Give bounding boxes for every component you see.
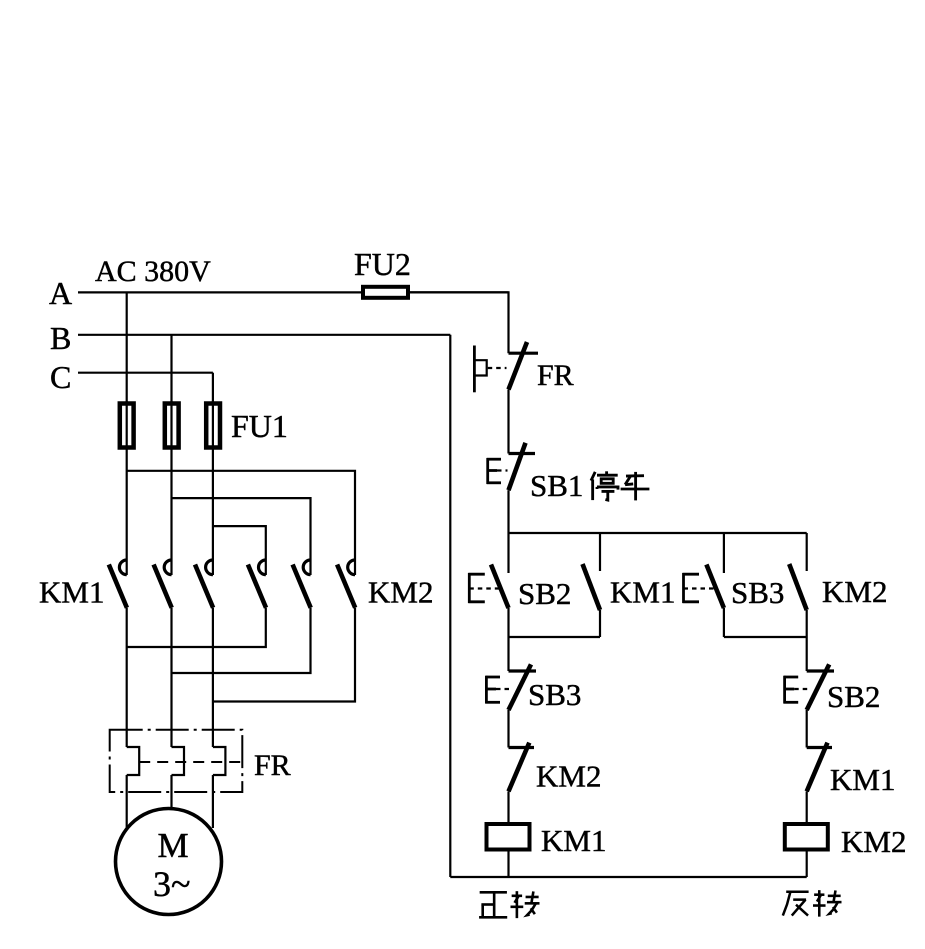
wire SB1 to top rail [507, 490, 509, 533]
dashed link SB2 [469, 587, 500, 589]
label fan (reverse char 1) [783, 892, 809, 916]
wire control top rail [509, 532, 807, 534]
wire SB2 NC to KM1 NC [806, 710, 808, 748]
label zhuan (forward char 2) [511, 891, 540, 918]
wire SB2 branch top [507, 533, 509, 573]
pushbutton SB3 NC contact (left branch) [509, 664, 537, 710]
wire heater 1 to motor [126, 775, 128, 828]
coil KM1 [487, 824, 530, 850]
thermal relay FR heater element 2 [172, 747, 185, 775]
svg-text:C: C [50, 359, 71, 395]
thermal relay FR linkage dashed [139, 761, 242, 763]
label zheng (forward char 1) [479, 892, 507, 917]
thermal relay FR heater box [110, 730, 243, 792]
wire KM2 contact 6 cross jumper to L3 [213, 608, 355, 702]
fuse FU2 [363, 287, 408, 298]
fuse FU1c [206, 401, 220, 450]
pushbutton SB2 actuator [468, 573, 485, 603]
wire KM1 contact 2 down [170, 608, 172, 747]
svg-text:A: A [49, 275, 72, 311]
wire SB2 to SB3 [507, 637, 509, 671]
thermal relay FR heater element 1 [127, 747, 140, 775]
pushbutton SB1 NC contact [509, 443, 536, 490]
wire KM1 contact 3 down [212, 608, 214, 747]
svg-text:KM2: KM2 [368, 575, 433, 610]
relay FR thermal actuator [474, 346, 486, 393]
wire parallel rail left [509, 636, 601, 638]
pushbutton SB3 NO contact (right) [706, 565, 724, 609]
contactor KM2 NC interlock contact [509, 743, 535, 792]
wire KM2 contact 5 cross jumper to L2 [172, 608, 311, 673]
contactor KM1 aux NO contact [583, 533, 601, 637]
dashed link SB3 left [496, 688, 512, 690]
wire phase B horizontal [78, 334, 450, 336]
wire coil KM1 to bottom rail [507, 850, 509, 878]
contactor KM1 main contact 2 [154, 560, 172, 608]
svg-text:AC 380V: AC 380V [95, 255, 211, 288]
svg-text:B: B [50, 320, 71, 356]
label ting (stop char 1) [591, 471, 618, 500]
coil KM2 [785, 824, 828, 850]
wire KM1 NC to coil KM2 [806, 791, 808, 822]
wire L3 fuse to KM1 contact 3 [212, 450, 214, 576]
wire heater 2 to motor [170, 775, 172, 809]
svg-text:FR: FR [254, 749, 291, 782]
wire parallel rail right [724, 636, 807, 638]
svg-text:FR: FR [537, 359, 574, 392]
svg-text:KM2: KM2 [822, 574, 887, 609]
wire SB3 to KM2 NC [507, 710, 509, 748]
fuse FU1b [165, 401, 179, 450]
contactor KM2 main contact 6 [337, 560, 355, 608]
fuse FU1a [120, 401, 134, 450]
svg-text:SB2: SB2 [827, 679, 880, 714]
contactor KM1 main contact 1 [109, 560, 127, 608]
wire FR to SB1 [507, 390, 509, 454]
svg-text:SB3: SB3 [528, 677, 581, 712]
wire L2 fuse to KM1 contact 2 [170, 450, 172, 576]
relay FR NC contact [509, 342, 539, 390]
contactor KM2 main contact 4 [248, 560, 266, 608]
pushbutton SB3 actuator (left) [485, 676, 500, 704]
wire L1 fuse to KM1 contact 1 [126, 450, 128, 576]
wire jumper L2 to KM2 contact 5 [172, 498, 311, 575]
svg-text:FU2: FU2 [354, 246, 411, 282]
pushbutton SB2 NO contact [491, 565, 509, 609]
wire phase C horizontal [78, 372, 213, 374]
contactor KM1 NC interlock contact [807, 743, 832, 792]
wire SB2 bottom [507, 608, 509, 637]
pushbutton SB3 actuator (right) [683, 573, 700, 603]
dashed link SB2 right [794, 688, 810, 690]
dashed link FR [488, 367, 507, 369]
wire KM2 NC to coil KM1 [507, 791, 509, 822]
wire KM2 aux to SB2 NC [806, 637, 808, 671]
wire phase B drop to fuse FU1b [170, 335, 172, 403]
wire phase C drop to fuse FU1c [212, 373, 214, 403]
wire KM1 contact 1 down [126, 608, 128, 747]
wire phase A horizontal [78, 291, 509, 293]
wire control corner A to FR contact [408, 292, 509, 353]
label che (stop char 2) [621, 472, 650, 501]
pushbutton SB2 actuator (right) [784, 676, 799, 704]
wire control bottom rail [450, 876, 806, 878]
wire jumper L1 to KM2 contact 6 [127, 471, 355, 575]
contactor KM2 main contact 5 [293, 560, 311, 608]
svg-text:KM2: KM2 [536, 759, 601, 794]
thermal relay FR heater element 3 [213, 747, 226, 775]
svg-text:SB2: SB2 [518, 576, 571, 611]
svg-text:SB3: SB3 [731, 575, 784, 610]
wire SB3 bottom (right) [723, 608, 725, 637]
svg-text:KM1: KM1 [830, 762, 895, 797]
svg-text:M: M [158, 826, 189, 865]
svg-text:3~: 3~ [153, 864, 190, 904]
dashed link SB1 [497, 469, 508, 471]
pushbutton SB2 NC contact (right branch) [807, 664, 834, 710]
svg-text:KM1: KM1 [39, 575, 104, 610]
wire phase A drop to fuse FU1a [126, 292, 128, 403]
svg-text:KM2: KM2 [841, 824, 906, 859]
dashed link SB3 right [684, 587, 716, 589]
motor M circle [116, 809, 222, 915]
pushbutton SB1 actuator [487, 458, 501, 484]
wire heater 3 to motor [212, 775, 214, 828]
wire left control rail from B [449, 335, 451, 877]
svg-text:KM1: KM1 [541, 823, 606, 858]
wire jumper L3 to KM2 contact 4 [213, 526, 266, 575]
svg-text:KM1: KM1 [610, 575, 675, 610]
svg-text:FU1: FU1 [231, 408, 288, 444]
contactor KM1 main contact 3 [195, 560, 213, 608]
wire coil KM2 to bottom rail [806, 850, 808, 878]
label zhuan (reverse char 2) [813, 890, 842, 917]
svg-text:SB1: SB1 [530, 468, 583, 503]
wire KM2 contact 4 cross jumper to L1 [127, 608, 266, 647]
contactor KM2 aux NO contact [789, 533, 807, 637]
wire SB3 branch top (right) [723, 533, 725, 573]
